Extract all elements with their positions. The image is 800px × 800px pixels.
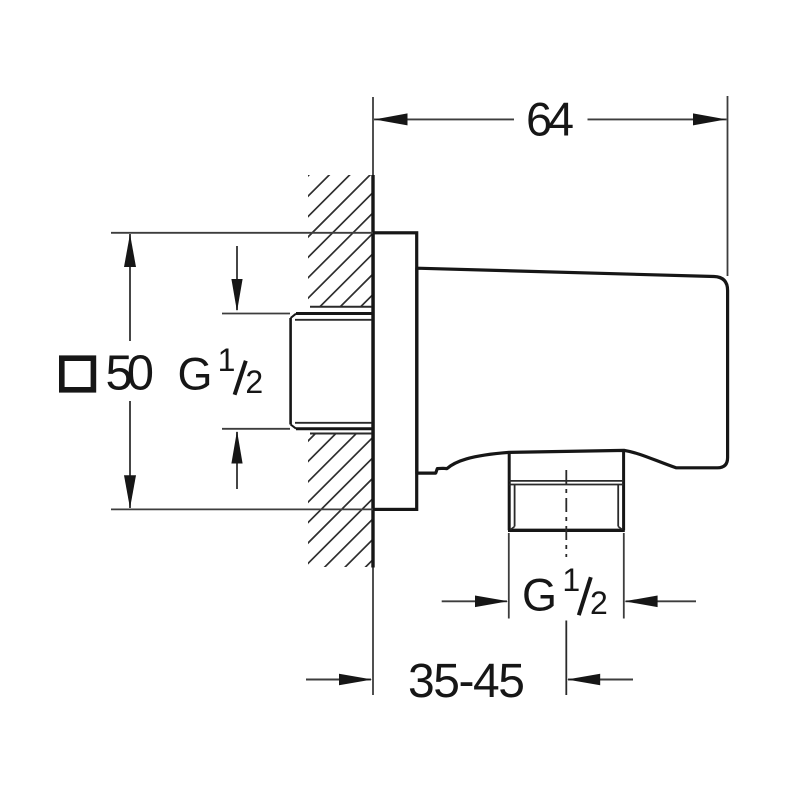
left G1/2: upper arrowhead [231,279,242,312]
dim 50: arrowhead bottom [124,475,136,508]
wall face line [371,175,374,568]
wall hatching lower [0,63,400,700]
dim 64: dimension line [374,118,727,120]
bottom G1/2: left arrow line [442,600,507,602]
bottom G1/2: label slash [579,577,591,615]
bottom G1/2: extension line right [623,533,625,619]
svg-text:2: 2 [245,364,263,400]
wall hole edge below inlet [310,433,372,435]
left G1/2: upper arrow line [236,246,238,310]
outlet centerline [565,470,567,557]
bottom G1/2: extension line left [508,533,510,619]
dim 50: arrowhead top [124,234,136,267]
dim 35-45: left arrowhead [339,674,372,686]
svg-text:1: 1 [218,342,236,378]
svg-text:1: 1 [562,562,580,598]
dim 50: extension line top [111,232,373,234]
dim 64: arrowhead left [374,113,407,125]
bottom G1/2: right arrowhead [624,596,657,608]
inlet pipe thread G1/2 (behind wall) [291,314,373,429]
dim 64: extension line left (wall face) [372,97,374,175]
dim 35-45: wall extension line [372,568,374,696]
escutcheon wall plate [373,233,417,510]
dim 35-45: left dimension line [306,679,371,681]
bottom G1/2: right arrow line [626,600,697,602]
left G1/2: label slash [235,361,246,395]
dim 50: dimension line [129,234,131,508]
svg-text:G: G [178,349,213,400]
dim 50: extension line bottom [111,508,373,510]
dim 35-45: right arrowhead [567,674,600,686]
dim 64: arrowhead right [693,113,726,125]
left G1/2: lower arrowhead [231,431,242,464]
left G1/2: extension line bottom [222,428,290,430]
svg-text:64: 64 [526,93,574,146]
fitting body outline [417,268,728,473]
outlet connector G1/2 [508,450,625,531]
svg-text:50: 50 [106,346,155,400]
dim 35-45: right dimension line [568,679,633,681]
left G1/2: lower arrow line [236,432,238,489]
wall hole edge above inlet [310,306,372,308]
left G1/2: extension line top [222,313,290,315]
bottom G1/2: left arrowhead [475,596,508,608]
svg-text:G: G [522,570,557,621]
dim 64: extension line right (body edge) [727,96,729,276]
dim 50: square symbol [62,358,94,390]
wall hatching upper [0,63,400,700]
svg-text:35-45: 35-45 [408,655,525,708]
svg-text:2: 2 [590,585,608,621]
